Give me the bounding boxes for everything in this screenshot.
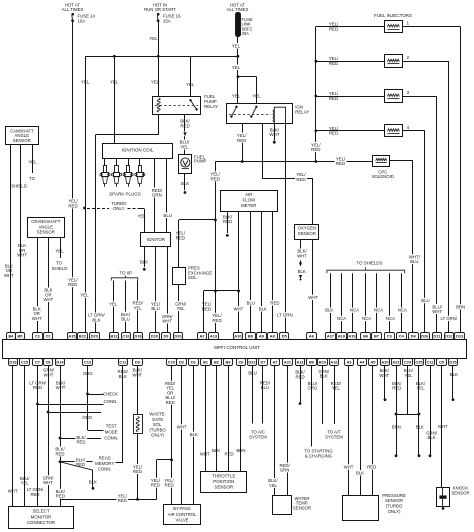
svg-text:BLK: BLK [320,374,328,379]
svg-text:BLK: BLK [259,306,267,311]
svg-text:BLK: BLK [450,372,458,377]
svg-text:WHT: WHT [379,373,389,378]
svg-text:YEL: YEL [416,386,425,391]
svg-text:BLU: BLU [421,298,429,303]
svg-text:SELECT: SELECT [32,509,49,514]
svg-text:D3: D3 [135,360,141,365]
svg-text:NCA: NCA [398,308,407,313]
svg-text:SENSOR: SENSOR [215,484,234,489]
svg-text:ALL TIMES: ALL TIMES [62,7,84,12]
svg-text:SHIELD: SHIELD [11,184,27,189]
svg-text:WHT: WHT [438,424,448,429]
svg-text:A8: A8 [270,333,276,338]
svg-text:MPFI CONTROL UNIT: MPFI CONTROL UNIT [214,345,260,350]
svg-text:BLU: BLU [410,259,418,264]
svg-text:RED: RED [296,177,305,182]
svg-text:PUMP: PUMP [194,159,207,164]
svg-text:WHT: WHT [432,309,442,314]
svg-text:CONN.: CONN. [104,435,118,440]
svg-text:4: 4 [407,125,410,130]
svg-text:SOLENOID: SOLENOID [372,174,394,179]
svg-text:SENSOR: SENSOR [293,505,311,510]
svg-text:ONLY): ONLY) [151,432,164,437]
svg-text:YEL: YEL [109,301,118,306]
svg-text:YEL: YEL [21,480,30,485]
svg-text:BLK: BLK [356,470,364,475]
svg-text:POSITION: POSITION [213,479,234,484]
svg-text:B9: B9 [309,360,315,365]
svg-text:YEL: YEL [405,373,414,378]
svg-text:GRN: GRN [280,467,290,472]
svg-text:RELAY: RELAY [295,109,309,114]
svg-text:ONLY: ONLY [113,206,125,211]
svg-text:AIR: AIR [245,192,252,197]
svg-text:IGNITOR: IGNITOR [147,237,165,242]
svg-text:SOL.: SOL. [188,275,198,280]
svg-text:SENSOR: SENSOR [385,498,403,503]
svg-text:B3: B3 [226,360,232,365]
svg-text:RED: RED [176,235,185,240]
svg-text:C12: C12 [119,360,127,365]
svg-text:YEL: YEL [55,248,64,253]
svg-text:BLK: BLK [140,260,148,265]
svg-text:MONITOR: MONITOR [31,514,52,519]
svg-text:CONN.: CONN. [104,399,118,404]
svg-text:C7: C7 [35,360,40,365]
svg-text:A3: A3 [347,360,353,365]
svg-text:RED: RED [296,374,305,379]
svg-text:RED: RED [329,26,338,31]
svg-text:RED: RED [212,318,221,323]
svg-text:YEL: YEL [232,43,241,48]
svg-text:A6: A6 [309,333,315,338]
svg-text:D23: D23 [91,333,99,338]
svg-text:A17: A17 [327,333,334,338]
svg-text:A9: A9 [259,333,265,338]
svg-text:CRANKSHAFT: CRANKSHAFT [31,219,61,224]
svg-text:A16: A16 [330,360,338,365]
svg-text:BLK: BLK [428,435,436,440]
svg-text:D15: D15 [449,360,457,365]
svg-text:C25: C25 [415,360,423,365]
svg-text:NCA: NCA [337,316,346,321]
svg-text:RED: RED [56,494,65,499]
svg-text:D12: D12 [445,333,453,338]
svg-text:MODE: MODE [105,429,118,434]
svg-text:C2: C2 [46,333,52,338]
svg-text:AIR CONTROL: AIR CONTROL [168,512,197,517]
svg-text:ANGLE: ANGLE [39,224,54,229]
svg-text:SENSOR: SENSOR [451,490,469,495]
svg-text:METER: METER [241,203,256,208]
svg-text:B4: B4 [9,333,15,338]
svg-text:A22: A22 [392,360,400,365]
svg-text:RED: RED [165,483,174,488]
svg-text:D13: D13 [456,333,464,338]
svg-text:A20: A20 [381,360,388,365]
svg-text:A5: A5 [371,360,377,365]
svg-text:RED: RED [367,464,376,469]
svg-text:WHT: WHT [43,480,53,485]
svg-text:A18: A18 [338,333,346,338]
svg-text:RED: RED [329,61,338,66]
svg-text:BLK: BLK [298,269,306,274]
svg-text:BLK: BLK [190,432,198,437]
svg-text:BLK: BLK [212,448,220,453]
svg-text:WHT: WHT [44,297,54,302]
svg-text:WHT: WHT [4,273,14,278]
svg-text:C11: C11 [427,360,435,365]
svg-text:D6: D6 [411,333,417,338]
svg-text:NCA: NCA [350,308,359,313]
svg-text:BLK: BLK [119,374,127,379]
svg-text:PRESSURE: PRESSURE [382,493,406,498]
svg-text:D5: D5 [282,333,288,338]
svg-text:RED: RED [237,138,246,143]
svg-text:B2: B2 [214,360,220,365]
svg-text:C15: C15 [21,360,29,365]
svg-text:ONLY): ONLY) [388,509,401,514]
svg-text:& CHARGING: & CHARGING [305,453,333,458]
svg-text:A21: A21 [284,360,292,365]
svg-text:RED: RED [270,300,279,305]
svg-text:D10: D10 [151,333,158,338]
svg-text:B6: B6 [363,333,369,338]
svg-text:YEL: YEL [186,82,195,87]
svg-text:YEL: YEL [177,306,186,311]
svg-text:RED: RED [118,498,127,503]
svg-text:30A: 30A [242,31,250,36]
svg-text:BLK: BLK [325,308,333,313]
svg-text:YEL: YEL [232,65,241,70]
svg-text:ALL TIMES: ALL TIMES [227,7,249,12]
svg-text:D7: D7 [261,360,266,365]
svg-text:WHT: WHT [297,253,307,258]
svg-text:C24: C24 [404,360,412,365]
svg-text:FLOW: FLOW [242,198,256,203]
svg-text:YEL: YEL [134,305,143,310]
svg-text:C10: C10 [168,360,175,365]
svg-text:RED: RED [68,282,77,287]
svg-text:A11: A11 [297,360,305,365]
svg-text:CONNECTOR: CONNECTOR [27,520,55,525]
svg-text:YEL: YEL [28,160,37,165]
svg-text:RED: RED [311,147,320,152]
svg-text:A10: A10 [234,333,241,338]
svg-text:THROTTLE: THROTTLE [212,474,235,479]
svg-text:D2: D2 [179,360,185,365]
svg-text:NCA: NCA [362,316,371,321]
svg-text:BLK: BLK [89,480,97,485]
svg-text:A15: A15 [68,333,76,338]
svg-text:YEL: YEL [332,386,341,391]
svg-text:GRN: GRN [152,193,162,198]
svg-text:A7: A7 [273,360,278,365]
svg-text:YEL: YEL [269,483,278,488]
svg-text:TO SHIELDS: TO SHIELDS [356,261,382,266]
svg-text:D19: D19 [134,333,142,338]
svg-text:SENSOR: SENSOR [37,230,55,235]
svg-text:RED: RED [180,123,189,128]
svg-text:A4: A4 [360,360,366,365]
svg-text:A13: A13 [210,333,218,338]
svg-text:B12: B12 [110,333,118,338]
svg-text:NCA: NCA [374,308,383,313]
svg-text:BRN: BRN [236,448,245,453]
svg-text:SENSOR: SENSOR [13,138,31,143]
svg-text:C3: C3 [387,333,393,338]
svg-text:CONN.: CONN. [98,466,112,471]
svg-text:RED: RED [225,452,234,457]
svg-text:SYSTEM: SYSTEM [325,434,343,439]
svg-text:D1: D1 [191,360,197,365]
svg-text:BY-PASS: BY-PASS [173,506,191,511]
svg-text:WHT: WHT [269,132,279,137]
svg-text:RED: RED [33,385,42,390]
svg-text:READ: READ [99,455,111,460]
svg-text:SPARK PLUGS: SPARK PLUGS [109,192,140,197]
svg-text:RED: RED [133,469,142,474]
svg-text:NCA: NCA [386,316,395,321]
svg-text:C4: C4 [399,333,405,338]
svg-text:VALVE: VALVE [176,517,189,522]
svg-text:BLU: BLU [121,317,129,322]
svg-text:C1: C1 [35,333,41,338]
svg-text:YEL: YEL [110,79,119,84]
svg-text:TEST: TEST [106,423,117,428]
svg-text:RED: RED [336,161,345,166]
svg-text:(TURBO: (TURBO [386,503,403,508]
svg-text:WHT: WHT [17,253,27,258]
svg-text:D9: D9 [164,333,170,338]
svg-text:RED: RED [166,400,175,405]
svg-text:BLU: BLU [163,213,172,218]
svg-text:RED: RED [223,219,232,224]
svg-text:RELAY: RELAY [204,104,218,109]
svg-text:FUEL INJECTORS: FUEL INJECTORS [374,13,412,18]
svg-text:WHT: WHT [56,385,66,390]
svg-text:RED: RED [211,176,220,181]
svg-text:3: 3 [407,90,410,95]
svg-text:BLK: BLK [92,317,100,322]
svg-text:WHT: WHT [234,306,244,311]
svg-text:RED: RED [329,131,338,136]
svg-text:MEMORY: MEMORY [95,461,114,466]
svg-text:B7: B7 [374,333,379,338]
svg-text:B10: B10 [319,360,326,365]
svg-text:B5: B5 [18,333,24,338]
svg-text:ORG: ORG [308,386,318,391]
svg-text:A2: A2 [200,333,206,338]
svg-text:BRN: BRN [456,304,465,309]
svg-text:1: 1 [407,20,410,25]
svg-text:2: 2 [407,55,410,60]
svg-text:RED: RED [151,483,160,488]
svg-text:C6: C6 [239,360,245,365]
svg-text:B1: B1 [203,360,209,365]
svg-text:C8: C8 [46,360,52,365]
svg-text:WHT: WHT [8,489,18,494]
svg-text:BLU: BLU [247,300,255,305]
svg-text:TO I/P: TO I/P [119,271,132,276]
svg-text:WHT: WHT [200,452,210,457]
svg-text:D26: D26 [421,333,429,338]
svg-text:RED: RED [68,203,77,208]
svg-text:BLU: BLU [151,306,159,311]
svg-text:YEL: YEL [81,79,90,84]
svg-text:SENSOR: SENSOR [298,231,316,236]
svg-text:YEL: YEL [180,144,189,149]
svg-text:WHT: WHT [32,316,42,321]
svg-text:SHIELD: SHIELD [52,266,68,271]
svg-text:TO: TO [56,261,63,266]
svg-text:LT GRN: LT GRN [277,312,293,317]
svg-text:WHT: WHT [308,295,318,300]
svg-text:RUN OR START: RUN OR START [144,7,176,12]
svg-text:YEL: YEL [149,36,158,41]
svg-text:BLU: BLU [261,385,269,390]
svg-text:YEL: YEL [252,93,261,98]
svg-text:WHT: WHT [132,372,142,377]
svg-text:BLK: BLK [416,425,424,430]
svg-text:BLU: BLU [248,371,256,376]
svg-text:ORG: ORG [83,371,93,376]
svg-text:B12: B12 [79,333,87,338]
svg-text:WHT: WHT [177,424,187,429]
svg-text:IGNITION COIL: IGNITION COIL [122,147,154,152]
svg-text:CHECK: CHECK [103,392,118,397]
svg-text:OXYGEN: OXYGEN [298,225,316,230]
svg-text:D18: D18 [9,360,17,365]
svg-text:ORG: ORG [82,415,92,420]
svg-text:10A: 10A [78,19,86,24]
svg-text:C5: C5 [439,360,445,365]
svg-text:WHT: WHT [44,372,54,377]
svg-text:YEL: YEL [232,93,241,98]
svg-text:RED: RED [30,492,39,497]
svg-text:RED: RED [76,440,85,445]
svg-text:WHT: WHT [162,318,172,323]
svg-text:WHT: WHT [344,464,354,469]
svg-text:D20: D20 [174,333,181,338]
svg-text:SYSTEM: SYSTEM [249,434,267,439]
svg-text:A19: A19 [348,333,356,338]
svg-text:BLK: BLK [181,181,189,186]
svg-text:D22: D22 [248,360,256,365]
svg-text:YEL: YEL [80,293,89,298]
svg-text:D14: D14 [56,360,64,365]
svg-text:D11: D11 [433,333,441,338]
svg-text:RED: RED [329,96,338,101]
svg-text:C16: C16 [122,333,130,338]
svg-text:YEL: YEL [151,79,160,84]
svg-text:TO: TO [29,176,36,181]
svg-text:RED: RED [392,386,401,391]
svg-text:LT GRN/: LT GRN/ [441,316,458,321]
svg-text:BRN: BRN [392,425,401,430]
svg-text:15A: 15A [163,19,171,24]
svg-text:RED: RED [55,451,64,456]
svg-text:B8: B8 [248,333,254,338]
svg-text:C13: C13 [84,360,92,365]
